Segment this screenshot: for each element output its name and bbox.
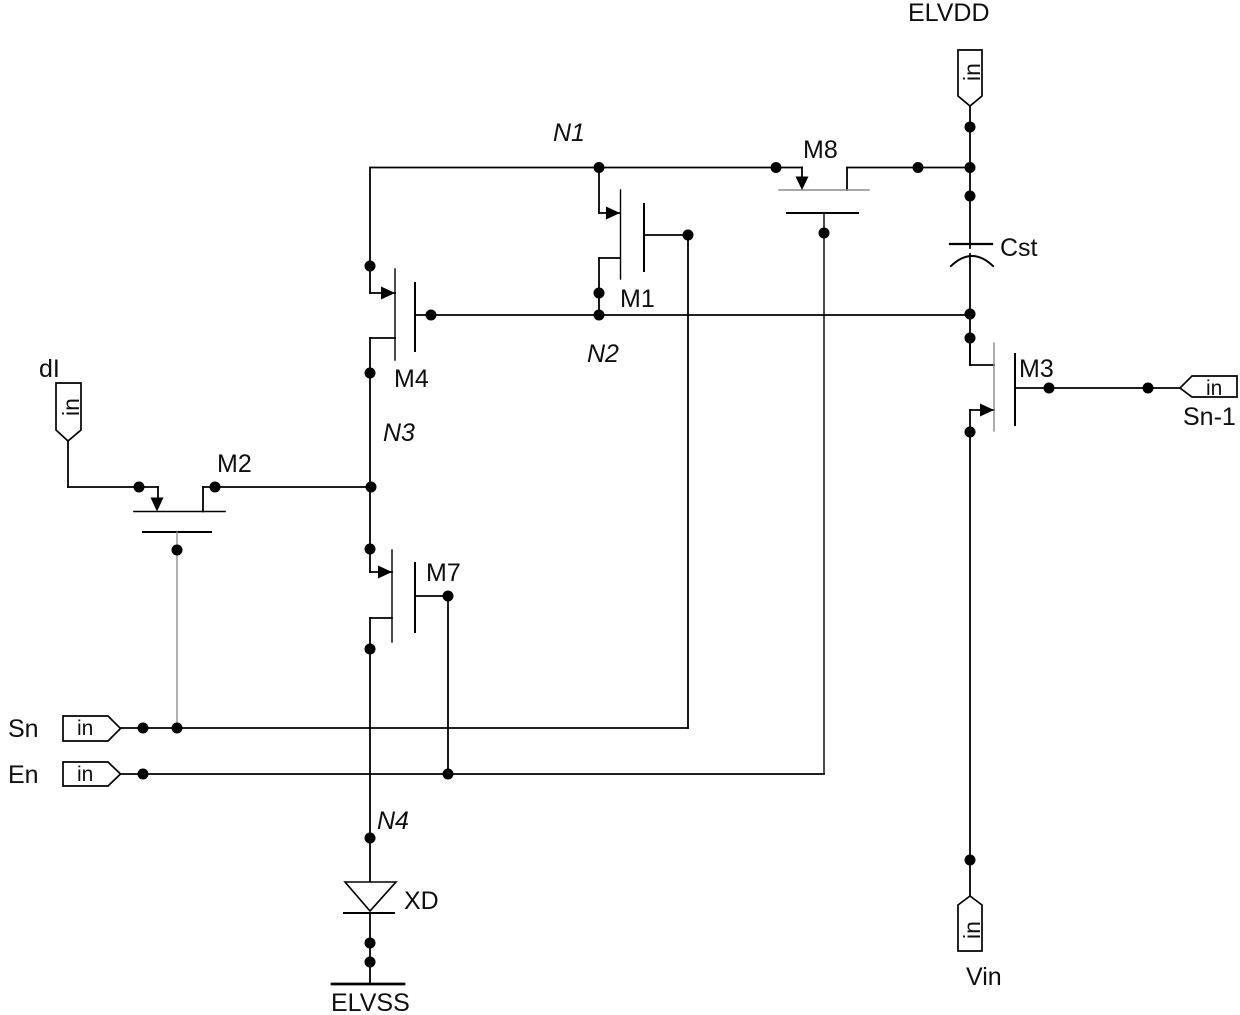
- junction dot Sn at M2 gate: [172, 723, 183, 734]
- junction dot M7 gate: [443, 591, 454, 602]
- diode XD triangle: [345, 882, 396, 911]
- wire M1 source to N2: [598, 258, 600, 315]
- wire M7 drain terminal: [370, 571, 392, 573]
- wire M1 drain stub: [598, 168, 600, 214]
- transistor M1 gate: [643, 204, 645, 271]
- junction dot at Sn-1 port: [1143, 383, 1154, 394]
- svg-text:Vin: Vin: [966, 963, 1002, 991]
- junction dot M1 source: [594, 288, 605, 299]
- wire M4 source terminal: [370, 337, 395, 339]
- wire M2 output to N3: [203, 486, 371, 488]
- svg-text:N2: N2: [587, 340, 619, 368]
- transistor M3 source arrow: [980, 404, 994, 417]
- capacitor Cst top plate: [950, 243, 992, 245]
- junction dot M8 gate: [819, 228, 830, 239]
- wire N1 vertical to M4 drain: [369, 168, 371, 294]
- port dI pentagon: [56, 383, 81, 441]
- svg-text:En: En: [8, 761, 39, 789]
- junction dot En port wire: [138, 769, 149, 780]
- svg-text:M8: M8: [803, 136, 838, 164]
- svg-text:in: in: [1206, 377, 1222, 400]
- junction dot N2 at rail: [965, 309, 976, 320]
- wire M3 source terminal: [970, 409, 994, 411]
- junction dot N3 tee: [366, 482, 377, 493]
- wire dI to M2: [68, 486, 158, 488]
- transistor M3 gate: [1014, 354, 1016, 425]
- junction dot N4: [365, 833, 376, 844]
- svg-text:M3: M3: [1019, 355, 1054, 383]
- wire N3 vertical: [369, 338, 371, 572]
- wire M2 right terminal: [202, 487, 204, 512]
- transistor M2 source arrow: [151, 498, 164, 512]
- svg-text:in: in: [77, 763, 93, 786]
- port En pentagon: [63, 762, 121, 786]
- transistor M8 channel: [779, 189, 869, 191]
- wire M2 left terminal: [157, 487, 159, 499]
- wire M8 drain terminal: [846, 168, 848, 191]
- junction dot N1 at M8: [771, 162, 782, 173]
- junction dot ELVDD below tee: [965, 191, 976, 202]
- junction dot M2 gate stub: [172, 545, 183, 556]
- wire M1 drain terminal: [599, 212, 620, 214]
- wire ELVDD rail vertical: [969, 106, 971, 248]
- transistor M2 channel: [134, 511, 225, 513]
- wire M8 drain to ELVDD rail: [847, 167, 970, 169]
- svg-text:Cst: Cst: [1000, 234, 1038, 262]
- wire M3 drain terminal: [970, 338, 994, 365]
- port Sn-1 pentagon: [1180, 376, 1237, 397]
- transistor M7 gate: [414, 563, 416, 632]
- svg-text:M2: M2: [217, 450, 252, 478]
- junction dot M4 gate on N2: [426, 310, 437, 321]
- junction dot ELVDD tee: [965, 162, 976, 173]
- wire M4 drain terminal: [370, 292, 395, 294]
- junction dot dI wire: [134, 482, 145, 493]
- wire M1 source terminal: [599, 257, 620, 259]
- svg-text:XD: XD: [404, 887, 439, 915]
- wire M8 source stub: [801, 168, 803, 179]
- transistor M4 channel: [394, 269, 396, 360]
- wire En riser to M7 gate: [447, 596, 449, 774]
- junction dot below XD lower: [365, 957, 376, 968]
- svg-text:in: in: [959, 63, 985, 81]
- svg-text:N4: N4: [377, 807, 409, 835]
- svg-text:dI: dI: [39, 355, 60, 383]
- svg-text:N3: N3: [383, 419, 415, 447]
- svg-text:Sn: Sn: [8, 715, 39, 743]
- transistor M2 gate: [143, 531, 211, 533]
- junction dot ELVDD wire mid: [913, 162, 924, 173]
- junction dot above Vin port: [965, 855, 976, 866]
- junction dot M4 source N3: [365, 368, 376, 379]
- wire N1 horizontal: [371, 167, 802, 169]
- transistor M4 gate: [414, 283, 416, 351]
- junction dot M3 source: [965, 427, 976, 438]
- transistor M8 source arrow: [796, 177, 809, 191]
- wire N2 horizontal: [415, 314, 970, 316]
- wire M8 gate riser to En: [823, 213, 825, 774]
- transistor M4 source arrow: [381, 287, 395, 300]
- transistor M1 channel: [620, 190, 622, 279]
- wire Vin vertical: [969, 410, 971, 896]
- svg-text:in: in: [58, 398, 84, 416]
- junction dot M1 gate: [683, 230, 694, 241]
- svg-text:M4: M4: [394, 365, 429, 393]
- junction dot M2 drain wire: [210, 482, 221, 493]
- junction dot Sn port wire: [138, 723, 149, 734]
- wire N4 vertical: [369, 618, 371, 882]
- wire M1 gate stub: [644, 234, 688, 236]
- transistor M8 gate: [787, 212, 858, 214]
- wire M7 gate stub: [415, 595, 448, 597]
- port ELVDD pentagon: [958, 50, 982, 106]
- junction dot En at M7 gate: [443, 769, 454, 780]
- wire dI port stub: [67, 441, 69, 487]
- svg-text:in: in: [959, 921, 985, 939]
- junction dot M4 drain: [365, 261, 376, 272]
- svg-text:in: in: [77, 717, 93, 740]
- junction dot below XD upper: [365, 938, 376, 949]
- ground ELVSS bar: [332, 983, 404, 986]
- wire En horizontal: [121, 773, 824, 775]
- svg-text:Sn-1: Sn-1: [1183, 403, 1236, 431]
- junction dot M7 drain: [365, 544, 376, 555]
- transistor M1 source arrow: [606, 207, 620, 220]
- wire Sn riser to M1 gate: [687, 235, 689, 728]
- svg-text:ELVSS: ELVSS: [331, 989, 410, 1015]
- svg-text:M1: M1: [620, 285, 655, 313]
- wire XD cathode to ELVSS: [369, 913, 371, 982]
- svg-text:M7: M7: [426, 559, 461, 587]
- transistor M7 source arrow: [378, 566, 392, 579]
- capacitor Cst bottom plate: [951, 256, 993, 266]
- junction dot rail below N2: [965, 333, 976, 344]
- junction dot N1 at M1: [594, 162, 605, 173]
- transistor M7 channel: [391, 550, 393, 642]
- transistor M2 gate riser to Sn: [176, 532, 178, 728]
- diode XD cathode bar: [344, 912, 394, 914]
- junction dot M3 gate: [1044, 383, 1055, 394]
- junction dot M1 at N2: [594, 310, 605, 321]
- svg-text:N1: N1: [553, 119, 585, 147]
- junction dot M7 source: [365, 644, 376, 655]
- port Vin pentagon: [958, 896, 982, 951]
- wire Cst bottom to M3 drain: [969, 254, 971, 365]
- wire M3 gate to Sn-1: [1015, 387, 1180, 389]
- wire M7 source terminal: [370, 617, 392, 619]
- svg-text:ELVDD: ELVDD: [908, 0, 990, 27]
- wire Sn horizontal: [121, 727, 688, 729]
- transistor M3 channel: [993, 343, 995, 431]
- port Sn pentagon: [63, 716, 121, 741]
- junction dot ELVDD below port: [965, 122, 976, 133]
